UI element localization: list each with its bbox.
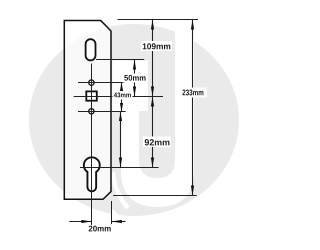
watermark lower white wedge <box>111 208 125 227</box>
bottom hole centerline <box>78 111 126 113</box>
watermark arc piece <box>113 172 128 208</box>
dimension 20mm line right <box>112 221 126 223</box>
right extension line 20mm <box>111 201 113 224</box>
top reference line <box>118 19 198 21</box>
dimension 92mm line <box>152 97 154 168</box>
euro cylinder hole <box>84 157 100 191</box>
spindle square <box>86 91 97 100</box>
screw slot <box>86 39 96 60</box>
label 92mm <box>143 137 171 148</box>
faceplate body <box>64 21 111 200</box>
dimension 50mm line <box>134 60 136 97</box>
spindle centerline <box>74 96 163 98</box>
vertical centerline <box>91 64 93 226</box>
white halo behind 50mm dim <box>112 60 148 111</box>
watermark ellipse <box>29 24 239 216</box>
top hole centerline <box>78 82 124 84</box>
bottom reference line <box>113 195 196 197</box>
dimension 20mm line left <box>69 221 91 223</box>
label 233mm <box>180 88 208 98</box>
slot reference line <box>96 59 144 61</box>
dimension 233mm line <box>192 20 194 196</box>
cylinder centerline <box>80 167 159 169</box>
dimension lower unlabeled line <box>120 112 122 168</box>
label 20mm <box>89 226 111 232</box>
dimension 43mm line <box>121 83 123 112</box>
top screw hole <box>89 80 94 85</box>
bottom screw hole <box>89 109 94 114</box>
label 43mm <box>113 91 133 100</box>
dimension 109mm line <box>152 20 154 97</box>
watermark letter U <box>121 25 194 207</box>
label 50mm <box>123 74 148 83</box>
label 109mm <box>141 41 172 51</box>
